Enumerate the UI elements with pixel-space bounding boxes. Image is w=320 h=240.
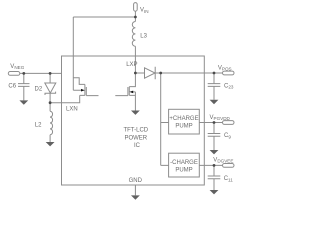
svg-text:VNEG: VNEG bbox=[10, 64, 24, 70]
svg-text:GND: GND bbox=[129, 178, 143, 184]
svg-text:C9: C9 bbox=[224, 133, 231, 139]
svg-text:VPOS: VPOS bbox=[218, 65, 232, 71]
-charge pump block bbox=[169, 153, 200, 177]
ground under C6 bbox=[19, 100, 28, 104]
svg-text:VPGVDD: VPGVDD bbox=[210, 115, 231, 121]
wire LXP node to diode bbox=[135, 72, 144, 74]
capacitor C11 bbox=[208, 165, 221, 190]
arrow Q2 body bbox=[129, 91, 133, 94]
svg-text:C6: C6 bbox=[8, 84, 16, 90]
junction node VNEG/C6 bbox=[22, 72, 25, 75]
wire GND pin stub bbox=[134, 185, 136, 195]
junction node diode/charge-pump feed bbox=[159, 72, 162, 75]
VIN terminal stub wire bbox=[134, 11, 136, 17]
svg-text:C11: C11 bbox=[224, 176, 234, 182]
wire LXN bbox=[50, 95, 80, 102]
svg-text:LXP: LXP bbox=[126, 62, 137, 68]
ground under C23 bbox=[210, 100, 219, 104]
ground under Q2 bbox=[131, 111, 140, 115]
junction node VNEG/D2 bbox=[49, 72, 52, 75]
IC box outline U1 TFT-LCD POWER IC bbox=[62, 56, 205, 185]
terminal VDGVEE bbox=[223, 164, 235, 168]
capacitor C6 bbox=[18, 73, 30, 100]
svg-text:L3: L3 bbox=[140, 33, 147, 39]
svg-text:VDGVEE: VDGVEE bbox=[213, 157, 233, 163]
diode D2 schottky bbox=[45, 73, 56, 95]
wire VDGVEE bbox=[199, 164, 222, 166]
junction node VIN/L3 bbox=[134, 16, 137, 19]
svg-text:C23: C23 bbox=[224, 84, 234, 90]
wire charge-pump feed bbox=[161, 73, 169, 165]
ground under C9 bbox=[210, 150, 219, 154]
transistor Q2 (LXP switch) bbox=[115, 73, 135, 111]
svg-text:VIN: VIN bbox=[140, 8, 149, 14]
svg-text:+CHARGE: +CHARGE bbox=[169, 116, 198, 122]
svg-text:POWER: POWER bbox=[124, 135, 147, 141]
junction node LXN bbox=[49, 101, 52, 104]
ground under L2 bbox=[46, 142, 55, 146]
transistor Q1 (LXN switch) bbox=[73, 17, 98, 96]
wire VNEG to IC bbox=[20, 72, 62, 74]
diode D1 bbox=[145, 67, 156, 79]
ground GND pin bbox=[131, 195, 140, 199]
svg-text:-CHARGE: -CHARGE bbox=[170, 160, 198, 166]
svg-text:PUMP: PUMP bbox=[175, 124, 192, 130]
wire D2 cathode to LXN junction bbox=[49, 93, 51, 102]
inductor L2 bbox=[50, 103, 52, 142]
svg-text:PUMP: PUMP bbox=[175, 168, 192, 174]
wire VIN rail bbox=[73, 16, 135, 18]
svg-text:TFT-LCD: TFT-LCD bbox=[123, 128, 148, 134]
svg-text:D2: D2 bbox=[35, 86, 43, 92]
junction node VPOS/C23 bbox=[213, 72, 216, 75]
junction node VPGVDD/C9 bbox=[213, 121, 216, 124]
terminal VNEG bbox=[8, 72, 19, 76]
capacitor C23 bbox=[208, 73, 221, 100]
+charge pump block bbox=[169, 109, 200, 134]
arrow Q1 body bbox=[81, 89, 85, 92]
inductor L3 bbox=[132, 17, 135, 73]
ground under C11 bbox=[210, 190, 219, 194]
wire VPGVDD bbox=[199, 122, 222, 124]
svg-text:LXN: LXN bbox=[66, 107, 78, 113]
junction node VDGVEE/C11 bbox=[213, 164, 216, 167]
svg-text:IC: IC bbox=[134, 143, 141, 149]
terminal VIN bbox=[134, 3, 138, 12]
junction node LXP bbox=[134, 72, 137, 75]
terminal VPGVDD bbox=[223, 121, 235, 125]
wire diode to VPOS bbox=[155, 72, 222, 74]
capacitor C9 bbox=[208, 123, 221, 151]
terminal VPOS bbox=[223, 71, 235, 75]
svg-text:L2: L2 bbox=[35, 122, 42, 128]
